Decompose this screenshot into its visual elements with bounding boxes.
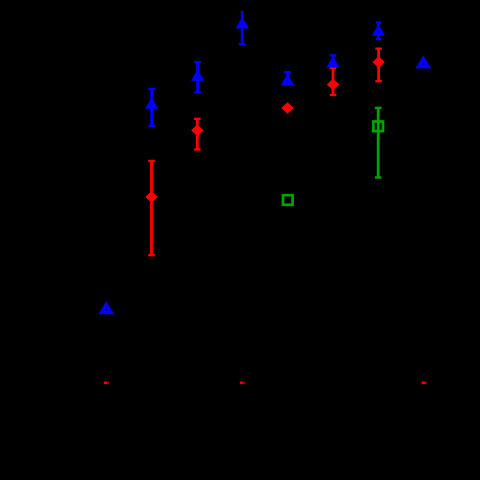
error bar blue T2 <box>194 62 201 92</box>
error bar red D2 <box>148 161 155 255</box>
marker red diamond D3 <box>281 102 293 114</box>
error bar blue T4 <box>284 72 291 86</box>
error bar blue T1 <box>148 89 155 126</box>
error bar blue T3 <box>239 11 246 44</box>
error bar green S1 <box>375 108 382 178</box>
marker red diamond D5 <box>372 56 384 68</box>
marker blue triangle T3 <box>236 17 249 29</box>
marker blue triangle T4 <box>281 73 294 85</box>
marker red diamond D4 <box>327 79 339 91</box>
marker blue open triangle T7 <box>419 59 428 67</box>
red dash label 3 <box>421 382 427 385</box>
error bar red D5 <box>375 49 382 82</box>
marker blue open triangle T8 <box>102 305 111 313</box>
marker red diamond D2 <box>145 191 157 203</box>
red dash label 1 <box>104 382 109 385</box>
error bar red D1 <box>194 119 201 150</box>
marker green open square S2 <box>283 195 293 205</box>
error bar red D4 <box>330 68 337 95</box>
error bar blue T6 <box>376 23 381 40</box>
marker red diamond D1 <box>191 125 203 137</box>
red dash label 2 <box>240 382 245 385</box>
marker blue triangle T1 <box>145 97 158 109</box>
marker blue triangle T6 <box>372 24 385 36</box>
marker green open square S1 <box>373 122 383 132</box>
marker blue triangle T5 <box>327 56 340 68</box>
error bar blue T5 <box>330 55 337 66</box>
marker blue triangle T2 <box>191 69 204 81</box>
